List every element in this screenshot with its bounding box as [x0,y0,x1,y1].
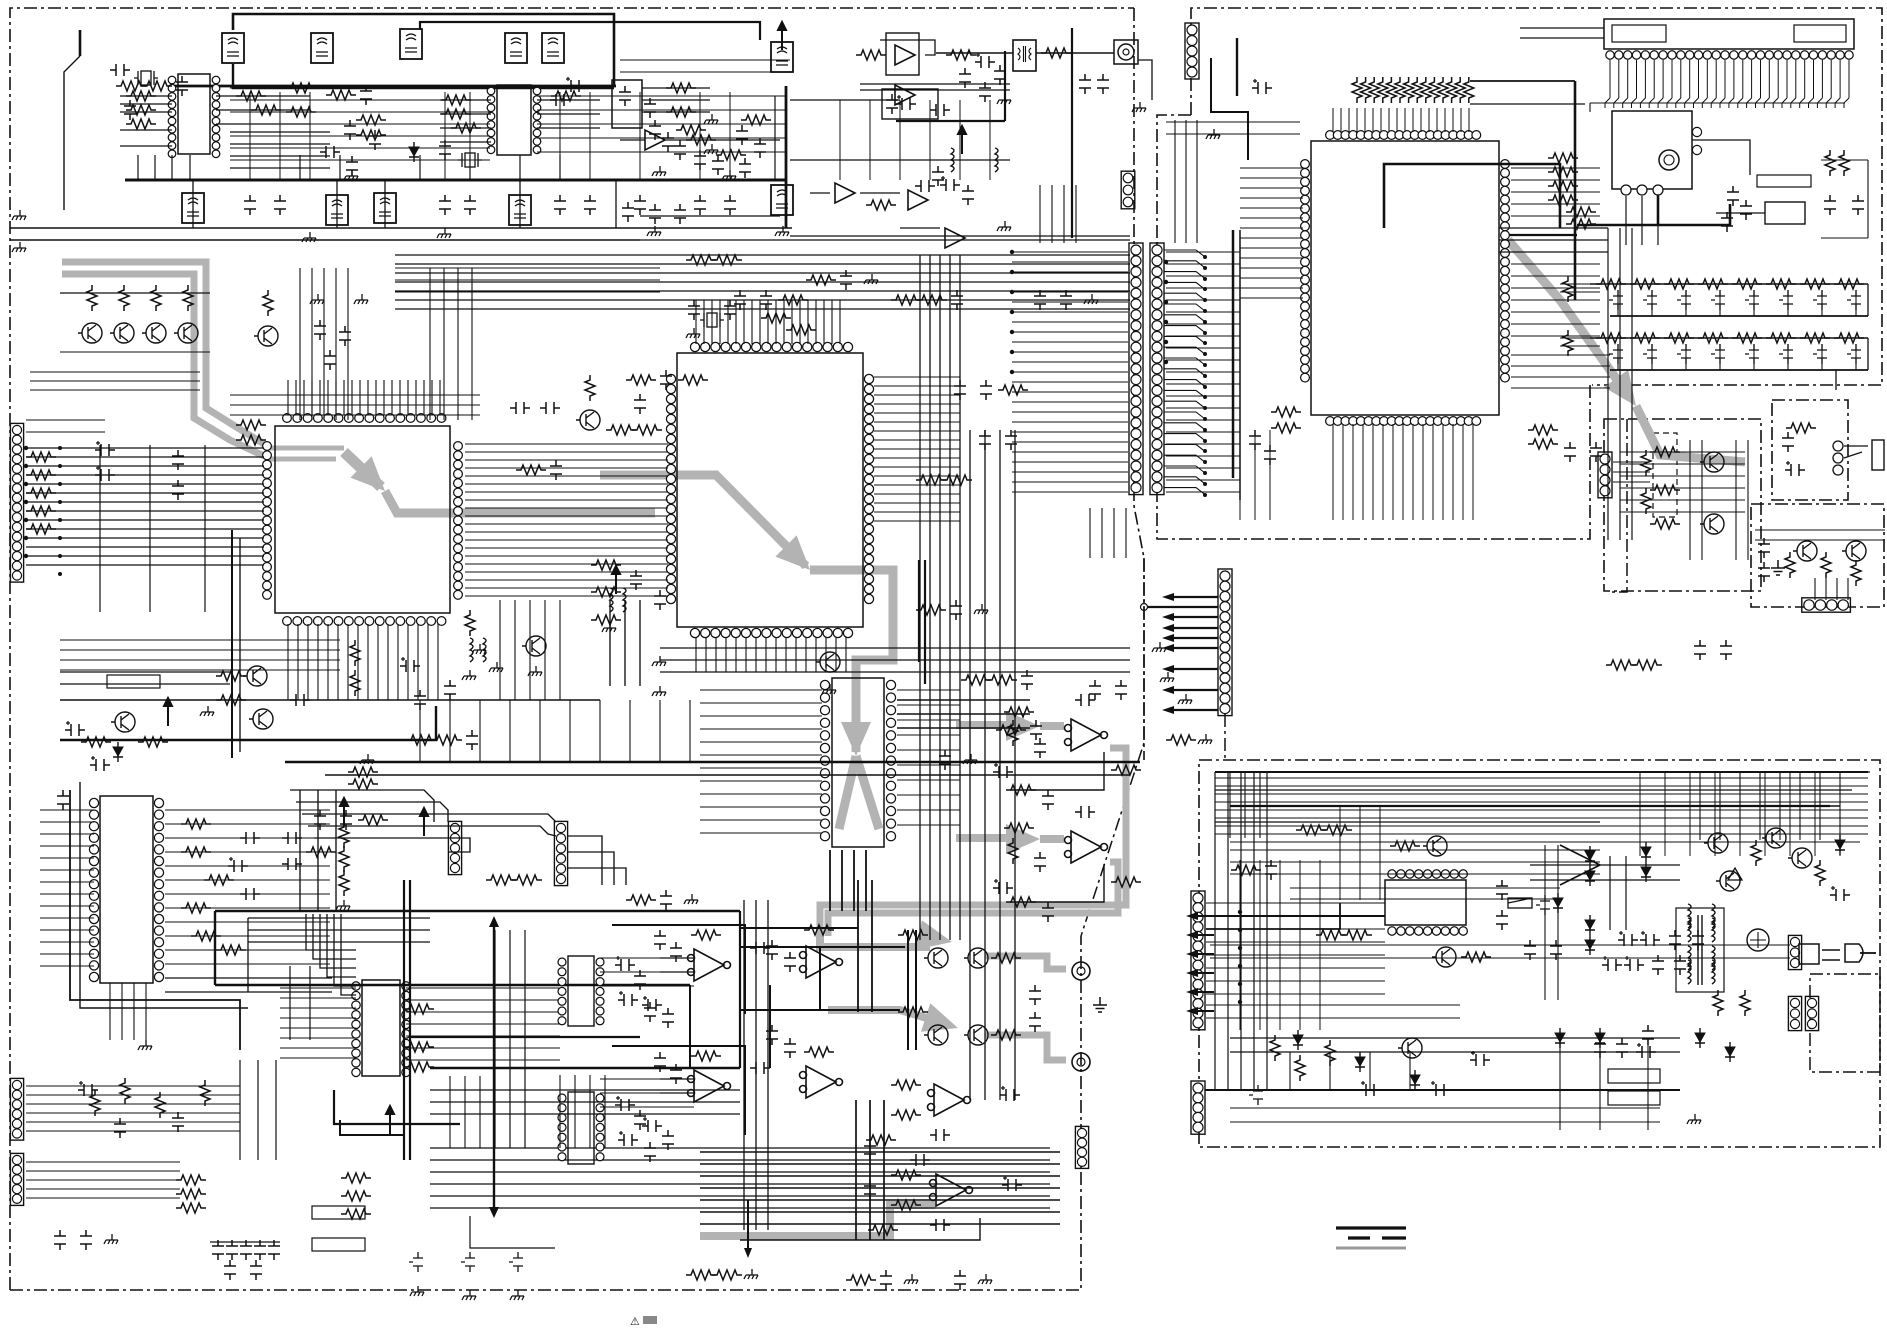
bottom mid caps [864,1140,876,1160]
key cell switch [1609,290,1623,310]
wire [897,690,960,825]
key cell R2 [1596,333,1626,343]
capacitor [1694,640,1706,660]
resistor [1751,840,1761,866]
resistor [1296,825,1326,835]
tuner unit box [1612,111,1692,189]
wire [193,180,786,228]
ecap bank [1618,931,1638,946]
resistor [891,295,921,305]
bus tuner bold [1577,204,1730,225]
arrow up antenna [778,22,786,50]
bus bottom mid dark2 [740,1009,900,1011]
wire [700,1152,1060,1224]
wire top band bus [233,64,614,88]
resistor [998,385,1028,395]
signal arrow into IC301 [600,475,806,566]
capacitor [110,64,130,76]
signal path out R [828,862,1118,936]
bus link [739,911,741,1068]
key cell R [1630,279,1660,289]
ground [974,604,988,614]
wire [1755,530,1885,540]
ground [138,1040,152,1050]
resistor [1231,865,1261,875]
wire [1620,452,1745,512]
junction dots fan [1203,255,1207,497]
IC IC601 main micom QFP [1311,141,1499,415]
mic transistor Q801 [1700,452,1724,472]
capacitor [950,600,962,620]
ground [1206,129,1220,139]
wire [470,1216,555,1248]
key cell switch [1745,290,1759,310]
frame main left bottom [10,936,1081,1290]
wire [1511,355,1610,388]
capacitor [172,450,184,470]
resistor row above IC301 [761,313,791,323]
resistor [1041,48,1071,58]
op-amp U405a [688,1070,731,1102]
resistor [606,425,636,435]
diode D1 [409,142,419,162]
ecap [1000,1086,1020,1101]
bus right [785,86,788,228]
transformer frame [1676,908,1724,992]
capacitor [932,166,944,186]
transistor Q103 [142,323,166,343]
ground [864,274,878,284]
signal arrows CN701 [1191,915,1214,917]
resistor IC402 right pins [404,1004,434,1014]
capacitor cluster tuner right [1727,186,1739,206]
connector CN8 [1121,171,1135,209]
signal path opamp L [956,721,1024,729]
arrow up [164,698,172,726]
bevel fan right of CN501 [1164,250,1205,257]
display module FL tube [1604,19,1854,49]
bus thick vertical right of IC601 [1574,81,1577,300]
connector CN101 left [10,423,23,582]
diode lower [1293,1030,1303,1050]
capacitor [954,1270,966,1290]
bus power emphasize [1230,805,1830,807]
resistor [1785,552,1795,578]
key matrix row 2 [1590,337,1868,339]
ecap lower [1360,1081,1380,1096]
wire [300,268,472,420]
label box tuner [1757,175,1811,187]
resistor [856,50,886,60]
transformer T701 left coil [1688,918,1691,942]
wire [1230,772,1260,838]
wire [1545,845,1558,1000]
transformer core [1697,915,1699,985]
wire [970,430,1015,1100]
resistor pair [1566,207,1596,217]
op-amp U404b [800,946,843,978]
wire snake 3 [302,814,556,822]
key cell R [1596,279,1626,289]
resistor [81,737,111,747]
resistor [666,83,696,93]
transistor Q204 [816,652,840,672]
IC IC301 DSP QFP [677,353,863,627]
op-amp IF [645,130,665,150]
label box power [1608,1069,1660,1083]
bus 2 [215,984,690,986]
ecap [400,657,420,672]
capacitor [360,85,372,105]
key matrix row 1 bottom [1610,315,1868,317]
capacitor [340,810,352,830]
wire [250,92,730,180]
signal arrow top right IC601 [1508,240,1630,398]
wire snake 2 [296,802,448,822]
op-amp U401 L [1065,719,1108,751]
ground [647,226,661,236]
capacitor [622,202,634,222]
IC IC404 opamp DIP [568,1092,594,1164]
key cell R2 [1630,333,1660,343]
power caps bank [1602,956,1622,971]
wire [1215,771,1870,773]
resistor [626,895,656,905]
display fan jogs [1605,98,1610,108]
op-amp U404a [688,949,731,981]
wire [1230,1038,1680,1052]
wire [900,227,940,229]
connector CN702 [1191,1081,1205,1134]
inductor pair [470,638,473,662]
resistor fb [691,930,721,940]
connector CN501 b [1150,243,1164,495]
resistor [996,725,1026,735]
diode [113,742,123,762]
resistor [1166,735,1196,745]
wire [395,255,1130,309]
resistor chain vertical [339,822,349,848]
resistor pairs on bundle [348,767,378,777]
resistor [778,295,808,305]
inductor 8 [951,148,954,172]
resistor [1322,825,1352,835]
op-amp A1 [895,45,915,65]
wire [696,300,840,344]
resistors above Q101-104 [87,285,97,311]
wire [216,96,310,124]
capacitor [660,370,672,390]
resistor [891,1080,921,1090]
wire [700,690,822,833]
bus right of CN501 [1232,230,1235,478]
wire [1716,212,1765,214]
wire [696,637,846,672]
capacitor [1029,985,1041,1005]
arrow up [612,566,620,594]
power resistors [1713,990,1723,1016]
wire [248,918,430,942]
key cell switch [1677,290,1691,310]
cap cluster analog [959,68,971,88]
capacitor [1089,680,1101,700]
wire [537,96,786,152]
transistor Q203 [522,636,546,656]
wire [1175,120,1197,243]
wire [660,648,1130,672]
bus thick rounded [285,761,1140,764]
headphone jack circles [1833,441,1843,451]
transistor Q706 lower [1398,1038,1422,1058]
transistor Q101 [78,323,102,343]
RC network U401 [1008,720,1018,746]
wire [165,810,330,964]
wire [500,600,560,700]
signal arrow into IC201 [268,446,344,451]
signal arrow to headphone [1636,406,1745,462]
wire right col [1867,284,1869,316]
LC filter [509,195,531,225]
signal path gray bundle left [62,262,264,444]
connector CN705 [1805,996,1818,1030]
fet cluster bottom [409,1252,423,1272]
resistor [678,375,708,385]
wire left of display [1236,38,1238,96]
wire opamp nets [1010,752,1104,790]
ground [652,686,666,696]
label box2 [312,1238,365,1251]
wire [1215,772,1267,1090]
ecap [95,441,115,456]
wire [642,88,710,112]
capacitor in box [886,94,898,114]
signal arrow IC301 out [810,570,893,752]
wire [620,60,790,72]
ground [744,1269,758,1279]
frame power supply block [1199,760,1880,1147]
bus wrap around IC102 [70,790,240,1050]
wire [920,255,960,940]
ground [462,670,476,680]
op-amp A5 [945,228,965,248]
ecap [1830,886,1850,901]
wire [230,395,480,415]
capacitor [954,380,966,400]
component fill 740-790 [741,115,771,125]
resistor triple [341,1173,371,1183]
resistor [866,1135,896,1145]
capacitor [1265,860,1277,880]
wire [280,988,356,1058]
key cell switch2 [1779,344,1793,364]
inductor pair 2 [610,588,613,612]
wire [1215,821,1600,823]
connector CN704 [1788,996,1801,1030]
bus IC402 right [410,1036,640,1038]
ground [1687,1114,1701,1124]
bus bold AM [896,120,1005,122]
RCA jack R [1072,1053,1090,1071]
key cell switch2 [1677,344,1691,364]
transformer windings more [1688,904,1691,928]
wire [1206,903,1385,994]
resistors left of U1 [126,91,156,101]
power thick feed [1206,903,1340,929]
wire [744,900,768,1230]
wire IC601 below left [1271,407,1301,417]
wire [60,640,340,670]
wire [290,966,310,1040]
wire [858,880,872,1012]
IC U1 tuner controller [178,74,210,154]
frame headphone block [1772,400,1848,500]
connector CN301 [448,821,461,874]
capacitor [290,694,310,706]
wire [240,1060,276,1160]
rectifier circle [1747,929,1769,951]
feedback box lower [882,89,938,119]
key cell switch [1643,290,1657,310]
wire [465,444,668,596]
speaker block transistors [1793,541,1817,561]
arrow pair [386,1106,394,1134]
capacitor [320,146,340,158]
resistor [712,1270,742,1280]
power caps lower [1594,1038,1606,1058]
frame top-right lower edge [1157,115,1590,539]
LC filter box [505,33,527,63]
big op-amp U407 [930,1174,973,1206]
connector CN403 [1075,1126,1088,1168]
wire [340,1120,404,1135]
wire [1520,28,1604,38]
LC filter [182,193,204,223]
signal path out L [820,748,1126,928]
arrow up [958,126,966,154]
wire [230,132,330,168]
resistor [917,295,947,305]
wire snake 4 [308,826,556,836]
resistor [1342,930,1372,940]
capacitor [939,750,951,770]
wire [1610,60,1849,98]
resistor [441,95,471,105]
bus top thick [172,85,616,88]
frame mid drop [1081,558,1144,936]
wire [830,850,866,911]
wire top band 2 [420,22,760,40]
ground [822,684,836,694]
ground cluster CN503 [1152,642,1166,652]
resistor [806,275,836,285]
wire [450,1076,480,1148]
wire [1815,578,1848,600]
bus thick bottom mid [215,910,740,913]
diode row right [1641,842,1651,862]
bus vertical x494 [493,923,495,1210]
wire [110,983,146,1040]
headphone plug [1872,440,1884,470]
capacitor drops on mid bus [244,195,256,215]
wire [856,1100,884,1240]
ground trio [410,1286,424,1296]
wire [300,790,336,911]
capacitor rows left-mid [282,832,302,844]
op-amp U402 R [1065,831,1108,863]
signal split DAC [839,756,856,829]
wire [10,239,640,241]
resistor [350,640,360,666]
tuner pins [1621,185,1663,195]
wire [1138,60,1152,100]
IC IC701 power DIP [1385,880,1466,925]
wire [1333,108,1469,132]
resistor triple left [176,1175,206,1185]
wire [908,930,916,1050]
capacitor fb [750,942,770,954]
key cell switch [1779,290,1793,310]
resistor lower [1270,1035,1280,1061]
ground [963,754,977,764]
wire [1240,168,1303,298]
wire nested feeds IC402 [306,914,356,950]
resistor [987,675,1017,685]
wire [30,372,200,390]
capacitor [550,94,570,106]
mic transistor Q802 [1700,514,1724,534]
wire [1613,462,1650,482]
capacitor [1564,442,1576,462]
label box power2 [1608,1091,1660,1105]
resistor [1606,660,1636,670]
ground [704,114,718,124]
capacitor [734,290,746,310]
signal arrow power amp L [820,928,930,947]
wire [1640,772,1840,856]
wire [1692,140,1750,175]
capacitor [1060,290,1072,310]
transformer T701 right coil [1712,918,1715,942]
signal arrows CN503 [1168,596,1218,598]
transistor pair QR [924,1025,948,1045]
wire [1166,122,1300,134]
key cell R2 [1732,333,1762,343]
wire [1206,1005,1460,1018]
arrow down [744,1248,752,1258]
capacitor [975,53,995,68]
wire [874,377,960,521]
key cell R2 [1800,333,1830,343]
wire [880,40,935,55]
resistor pair x600 [591,560,621,570]
op-amp A2 [895,85,915,105]
wire [1230,1108,1660,1122]
capacitor [57,790,69,810]
key cell switch2 [1813,344,1827,364]
inductor box [771,185,793,215]
resistor [236,420,266,430]
small fets power [1249,1085,1263,1105]
wire [1040,185,1076,243]
connector CN501 a [1129,243,1143,495]
transistor Q107 [111,712,135,732]
wire [26,420,105,432]
diode pair bottom [1555,1028,1565,1048]
wire [440,100,491,142]
wire [1215,778,1868,834]
wire [600,1079,694,1107]
wire [420,700,690,762]
